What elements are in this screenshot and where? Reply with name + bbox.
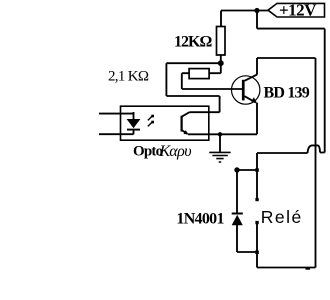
svg-text:+12V: +12V	[279, 1, 317, 20]
svg-text:Καρυ: Καρυ	[159, 143, 192, 160]
svg-text:BD 139: BD 139	[264, 84, 310, 101]
svg-text:Opto: Opto	[133, 144, 163, 160]
svg-text:12KΩ: 12KΩ	[174, 34, 212, 51]
svg-text:2,1 KΩ: 2,1 KΩ	[108, 69, 149, 85]
svg-text:1N4001: 1N4001	[176, 210, 224, 227]
svg-text:Relé: Relé	[261, 207, 303, 227]
